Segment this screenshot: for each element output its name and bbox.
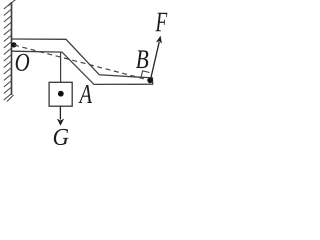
label O xyxy=(16,54,30,71)
string from rod to block xyxy=(60,52,62,82)
end dot B xyxy=(147,78,152,83)
label F xyxy=(155,13,167,32)
label G xyxy=(54,129,69,145)
label B xyxy=(136,50,148,68)
wall hatching xyxy=(4,0,16,102)
label A xyxy=(79,85,92,103)
dashed line OB xyxy=(14,45,150,80)
bent rod OB (outline) xyxy=(12,39,153,84)
force arrow F xyxy=(150,36,162,80)
weight arrow G xyxy=(57,106,64,126)
pivot dot O xyxy=(11,42,16,47)
right-angle marker at B xyxy=(141,71,149,78)
dot in block (point A) xyxy=(58,91,64,97)
wall (vertical support line) xyxy=(11,2,13,95)
block A xyxy=(49,82,72,106)
